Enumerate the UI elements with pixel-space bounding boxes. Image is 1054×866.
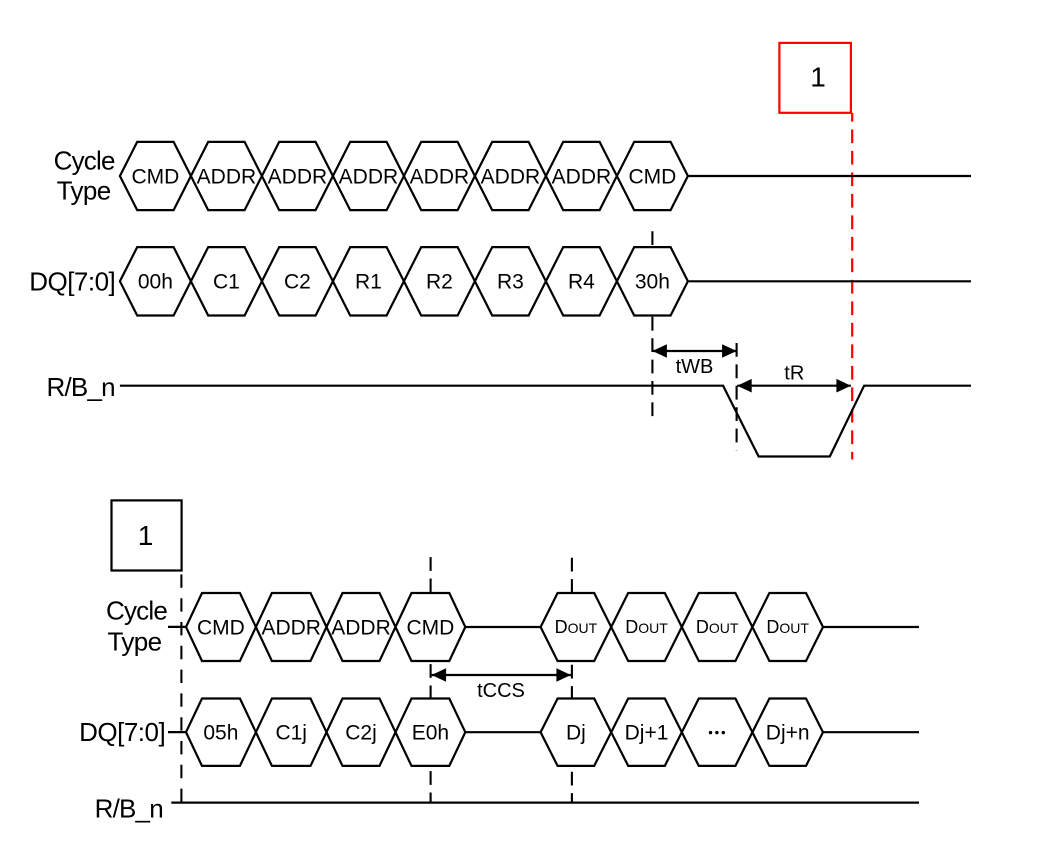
svg-text:1: 1: [810, 61, 826, 92]
bus cell top cycle-type 2 ADDR: [191, 142, 262, 210]
wire: DQ mid-level gap line (bottom): [465, 731, 540, 733]
bus cell bottom DQ data 2 Dj+1: [611, 699, 682, 766]
red dashed continuation line from connector box 1: [851, 113, 853, 460]
bus cell top cycle-type 8 CMD: [617, 142, 688, 210]
svg-text:ADDR: ADDR: [552, 165, 612, 188]
svg-text:00h: 00h: [138, 271, 173, 294]
bus cell bottom cycle-type 2 ADDR: [256, 593, 327, 661]
svg-text:Cycle: Cycle: [54, 146, 115, 176]
bus cell bottom DQ data 1 Dj: [541, 699, 612, 766]
bus cell bottom DQ 3 C2j: [327, 699, 396, 766]
svg-text:Dj: Dj: [566, 722, 586, 745]
svg-text:DOUT: DOUT: [625, 617, 668, 637]
svg-text:DOUT: DOUT: [766, 617, 809, 637]
svg-text:CMD: CMD: [628, 165, 676, 188]
bus cell bottom DQ data 4 Dj+n: [752, 699, 823, 766]
wire: cycle type mid-level gap line (bottom): [465, 626, 540, 628]
wire: cycle type row trailing line (top): [688, 175, 971, 177]
svg-text:DQ[7:0]: DQ[7:0]: [29, 266, 115, 296]
svg-text:R/B_n: R/B_n: [47, 372, 115, 402]
bus cell top cycle-type 5 ADDR: [404, 142, 475, 210]
wire: DQ row trailing line (bottom): [823, 731, 919, 733]
bus cell top DQ 2 C1: [191, 247, 262, 315]
bus cell top DQ 6 R3: [475, 247, 546, 315]
bus cell top DQ 1 00h: [120, 247, 191, 315]
svg-text:C2j: C2j: [345, 722, 377, 745]
bus cell bottom cycle-type Dout 3: [682, 593, 753, 661]
dashed timing reference line at first Dout (bottom diagram): [571, 558, 573, 803]
bus cell bottom cycle-type 4 CMD: [396, 593, 466, 661]
svg-text:ADDR: ADDR: [331, 616, 391, 639]
Cycle Type row label (bottom): [106, 596, 167, 657]
svg-text:ADDR: ADDR: [339, 165, 399, 188]
svg-text:tR: tR: [784, 363, 804, 385]
svg-text:CMD: CMD: [131, 165, 179, 188]
svg-text:C2: C2: [284, 271, 311, 294]
svg-text:DOUT: DOUT: [696, 617, 739, 637]
svg-text:Dj+1: Dj+1: [625, 722, 669, 745]
tR double-headed arrow: [737, 379, 851, 393]
bus cell top DQ 4 R1: [333, 247, 404, 315]
wire: cycle type row trailing line (bottom): [823, 626, 919, 628]
svg-text:R1: R1: [355, 271, 382, 294]
svg-text:Type: Type: [108, 627, 162, 657]
svg-text:ADDR: ADDR: [197, 165, 257, 188]
bus cell top DQ 3 C2: [262, 247, 333, 315]
svg-text:R/B_n: R/B_n: [95, 794, 163, 824]
svg-text:R2: R2: [426, 271, 453, 294]
bus cell top cycle-type 1 CMD: [120, 142, 191, 210]
svg-text:Cycle: Cycle: [106, 596, 167, 626]
svg-text:tCCS: tCCS: [477, 680, 525, 702]
svg-text:05h: 05h: [203, 722, 238, 745]
tCCS double-headed arrow: [432, 668, 571, 682]
svg-text:E0h: E0h: [412, 722, 449, 745]
wire: DQ row trailing line (top): [688, 280, 971, 282]
bus cell bottom DQ 4 E0h: [396, 699, 466, 766]
bus cell top cycle-type 7 ADDR: [546, 142, 617, 210]
bus cell top DQ 8 30h: [617, 247, 688, 315]
bus cell bottom cycle-type Dout 1: [541, 593, 612, 661]
bus cell bottom DQ 2 C1j: [256, 699, 327, 766]
dashed timing reference line at R/B_n fall (top diagram): [736, 343, 738, 450]
svg-text:C1: C1: [213, 271, 240, 294]
svg-text:30h: 30h: [635, 271, 670, 294]
svg-text:R4: R4: [568, 271, 595, 294]
bus cell bottom DQ data 3 ...: [682, 699, 753, 766]
svg-text:DOUT: DOUT: [555, 617, 598, 637]
Cycle Type row label (top): [54, 146, 115, 206]
dashed timing reference line at 30h command latch (top diagram): [651, 231, 653, 416]
svg-text:R3: R3: [497, 271, 524, 294]
bus cell top cycle-type 6 ADDR: [475, 142, 546, 210]
svg-text:ADDR: ADDR: [410, 165, 470, 188]
bus cell bottom cycle-type 1 CMD: [186, 593, 256, 661]
wire: R/B_n ready line (bottom): [171, 801, 919, 803]
svg-text:DQ[7:0]: DQ[7:0]: [79, 717, 165, 747]
wire: R/B_n waveform with busy dip (top): [120, 386, 971, 457]
svg-text:ADDR: ADDR: [268, 165, 328, 188]
dashed timing reference line at E0h command (bottom diagram): [430, 557, 432, 803]
bus cell top cycle-type 4 ADDR: [333, 142, 404, 210]
svg-text:CMD: CMD: [197, 616, 245, 639]
svg-text:ADDR: ADDR: [481, 165, 541, 188]
bus cell bottom cycle-type 3 ADDR: [327, 593, 396, 661]
wire: cycle type lead-in tick (bottom): [168, 626, 186, 628]
bus cell bottom cycle-type Dout 4: [752, 593, 823, 661]
wire: DQ lead-in tick (bottom): [168, 731, 186, 733]
svg-text:CMD: CMD: [406, 616, 454, 639]
svg-text:Dj+n: Dj+n: [766, 722, 810, 745]
svg-text:tWB: tWB: [676, 356, 714, 378]
svg-text:1: 1: [138, 520, 154, 551]
bus cell top DQ 7 R4: [546, 247, 617, 315]
bus cell bottom DQ 1 05h: [186, 699, 256, 766]
svg-text:Type: Type: [57, 175, 111, 205]
tWB double-headed arrow: [652, 344, 736, 358]
black connector box 1 (bottom diagram): [112, 500, 182, 570]
bus cell top cycle-type 3 ADDR: [262, 142, 333, 210]
svg-text:C1j: C1j: [275, 722, 307, 745]
svg-text:ADDR: ADDR: [261, 616, 321, 639]
red connector box 1 (top diagram): [779, 43, 851, 113]
bus cell bottom cycle-type Dout 2: [611, 593, 682, 661]
bus cell top DQ 5 R2: [404, 247, 475, 315]
dashed line from connector box 1 (bottom diagram): [180, 571, 182, 803]
